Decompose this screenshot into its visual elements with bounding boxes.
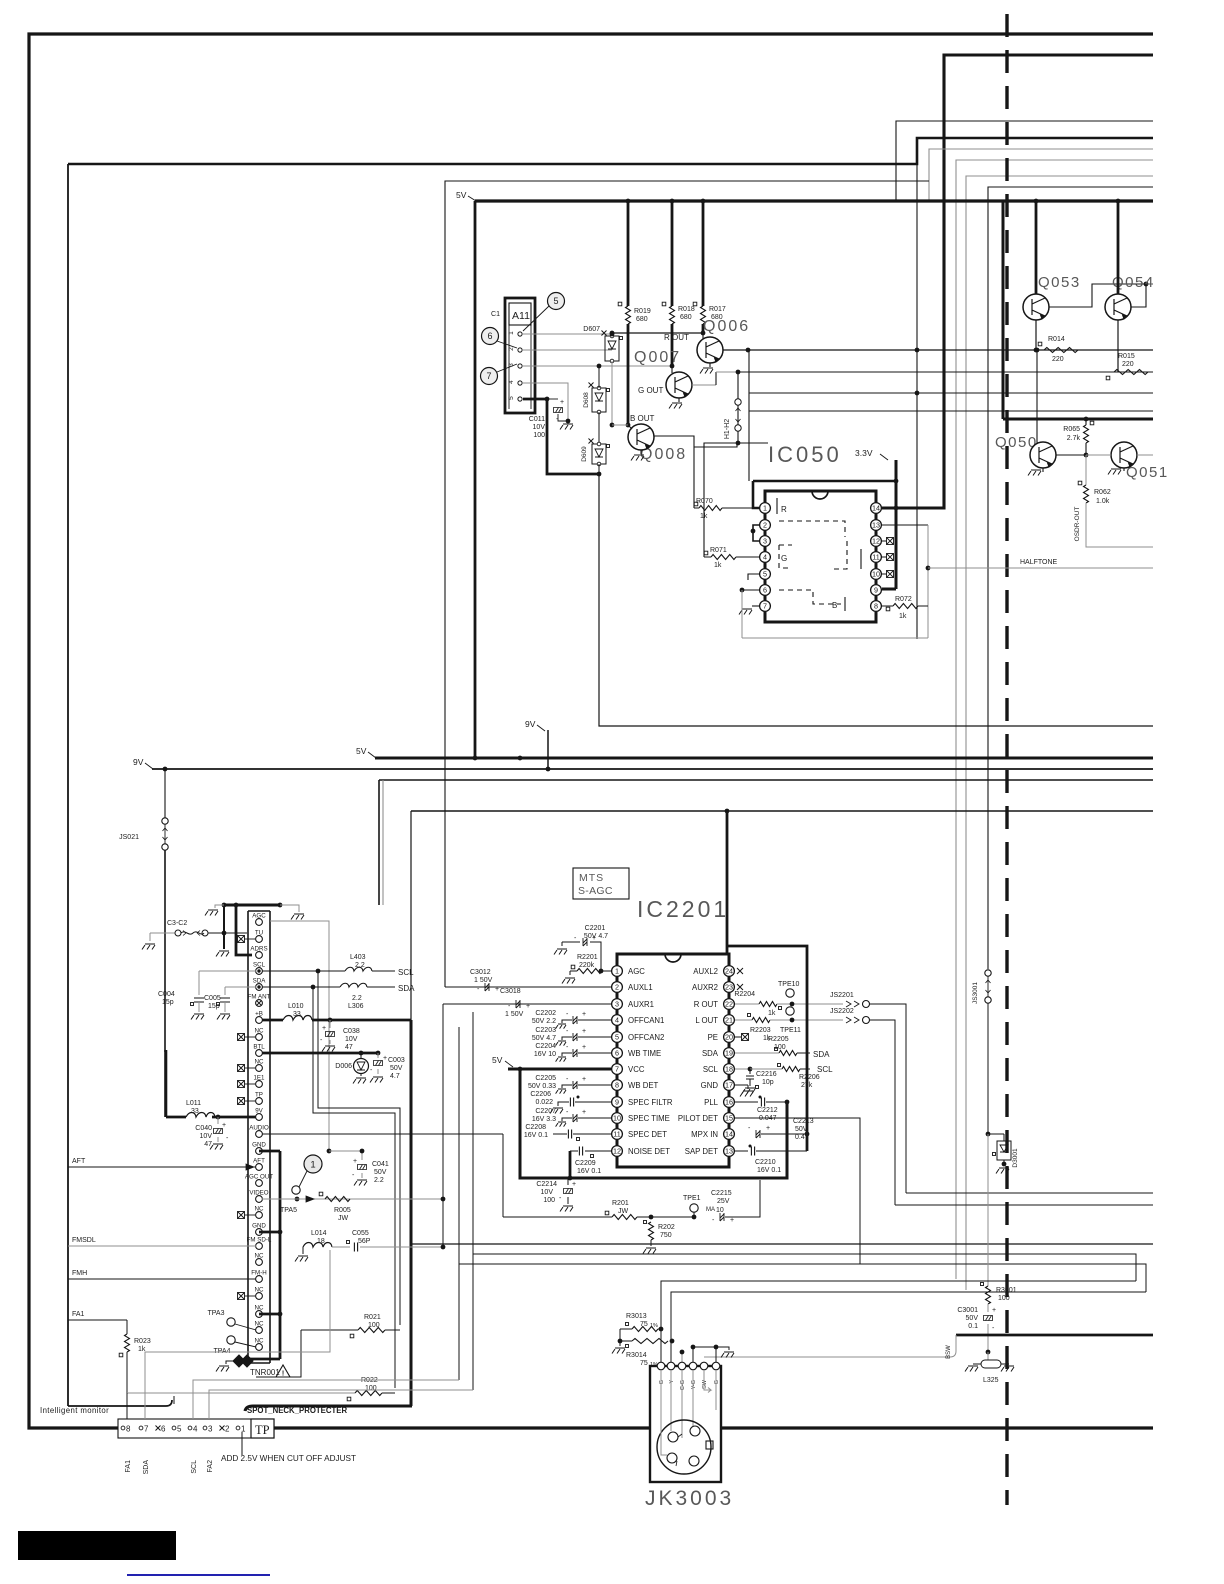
svg-text:AUXL1: AUXL1 <box>628 983 653 992</box>
svg-text:100: 100 <box>365 1385 377 1392</box>
svg-text:+: + <box>560 399 564 406</box>
svg-text:50V 2.2: 50V 2.2 <box>532 1018 556 1025</box>
svg-text:C055: C055 <box>352 1230 369 1237</box>
svg-text:L010: L010 <box>288 1003 304 1010</box>
svg-text:AFT: AFT <box>72 1158 86 1165</box>
capacitor C011 <box>547 398 558 400</box>
svg-text:Q006: Q006 <box>703 318 750 335</box>
wire row 411 <box>749 410 1153 412</box>
svg-text:5V: 5V <box>356 746 367 756</box>
svg-text:FA1: FA1 <box>125 1460 132 1473</box>
svg-text:G: G <box>659 1380 665 1384</box>
svg-text:IC050: IC050 <box>768 442 842 467</box>
svg-text:6: 6 <box>161 1425 166 1434</box>
3.3V wire <box>895 460 898 589</box>
inductor L014 <box>303 1243 332 1248</box>
svg-text:+: + <box>730 1217 734 1224</box>
IC050 surround wire bottom <box>742 637 928 639</box>
svg-text:NC: NC <box>255 1027 264 1034</box>
svg-text:L403: L403 <box>350 954 366 961</box>
gray corner wire B <box>956 160 1153 1279</box>
wire x917 <box>916 164 918 639</box>
svg-text:C2205: C2205 <box>535 1075 556 1082</box>
svg-text:C003: C003 <box>388 1057 405 1064</box>
svg-text:7: 7 <box>763 602 767 611</box>
svg-text:R018: R018 <box>678 306 695 313</box>
svg-text:SDA: SDA <box>143 1460 150 1475</box>
svg-text:3: 3 <box>763 537 767 546</box>
svg-text:13: 13 <box>872 521 880 530</box>
5V mid rail <box>375 757 1153 760</box>
svg-text:7: 7 <box>486 371 491 381</box>
resistor R065 <box>1084 425 1089 443</box>
svg-text:7: 7 <box>615 1065 619 1074</box>
svg-text:+: + <box>526 1003 530 1010</box>
svg-text:C2208: C2208 <box>525 1124 546 1131</box>
svg-text:11: 11 <box>613 1130 620 1139</box>
tuner top bus thick <box>224 904 280 907</box>
wire upper right thin <box>896 121 1153 201</box>
svg-text:10V: 10V <box>533 424 546 431</box>
test point TPE10 <box>786 989 794 997</box>
svg-text:1k: 1k <box>899 613 907 620</box>
svg-text:C2203: C2203 <box>535 1027 556 1034</box>
svg-text:JW: JW <box>618 1208 629 1215</box>
svg-text:+: + <box>582 1109 586 1116</box>
Q053 base wire <box>1049 284 1153 307</box>
test point TPE1 <box>690 1204 698 1212</box>
svg-text:SDA: SDA <box>702 1049 719 1058</box>
svg-text:10: 10 <box>613 1114 621 1123</box>
svg-text:17: 17 <box>725 1081 733 1090</box>
svg-text:HALFTONE: HALFTONE <box>1020 559 1058 566</box>
svg-text:+: + <box>582 1011 586 1018</box>
IC2201 thick feed <box>726 811 729 954</box>
circled 1 callout <box>304 1155 322 1173</box>
svg-text:ADRS: ADRS <box>250 945 267 952</box>
JK3003 top pins <box>657 1362 665 1370</box>
svg-text:2.2: 2.2 <box>352 995 362 1002</box>
svg-text:1k: 1k <box>768 1010 776 1017</box>
svg-text:AGC: AGC <box>628 967 645 976</box>
svg-text:NC: NC <box>255 1304 264 1311</box>
wire row 443 to R071 <box>704 443 738 557</box>
wire R OUT row <box>612 332 703 334</box>
capacitor C2209 <box>579 1147 582 1156</box>
svg-text:12: 12 <box>613 1147 621 1156</box>
JK3003 internal wires <box>660 1370 662 1415</box>
svg-text:C005: C005 <box>204 995 221 1002</box>
IC IC2201 body <box>665 954 681 962</box>
svg-text:1.0k: 1.0k <box>1096 498 1110 505</box>
svg-text:C3001: C3001 <box>957 1307 978 1314</box>
svg-text:R014: R014 <box>1048 336 1065 343</box>
svg-text:C2215: C2215 <box>711 1190 732 1197</box>
svg-text:SW: SW <box>702 1379 708 1389</box>
svg-text:15: 15 <box>725 1114 733 1123</box>
svg-text:R023: R023 <box>134 1338 151 1345</box>
Q008 collector wire to R070 <box>654 436 694 508</box>
ground mid <box>223 905 225 949</box>
svg-text:FM SD-L: FM SD-L <box>247 1236 272 1243</box>
svg-text:SDA: SDA <box>253 977 267 984</box>
svg-text:NC: NC <box>255 1058 264 1065</box>
tuner connector body <box>247 911 249 1363</box>
svg-text:1: 1 <box>763 504 767 513</box>
svg-text:AUDIO: AUDIO <box>249 1124 269 1131</box>
svg-text:C3012: C3012 <box>470 969 491 976</box>
svg-text:C2210: C2210 <box>755 1159 776 1166</box>
tuner outline gray <box>270 921 329 1151</box>
svg-text:R2204: R2204 <box>734 991 755 998</box>
resistor R2201 <box>569 971 571 975</box>
svg-text:C2201: C2201 <box>585 925 606 932</box>
svg-text:56P: 56P <box>358 1238 371 1245</box>
resistor R072 <box>882 605 893 607</box>
SCL vertical route <box>318 971 400 1325</box>
resistor R071 <box>704 556 711 558</box>
svg-text:5: 5 <box>763 570 767 579</box>
svg-text:4: 4 <box>193 1425 198 1434</box>
svg-text:R005: R005 <box>334 1207 351 1214</box>
thick loop around IC2201 <box>520 1069 787 1178</box>
box MTS section left edge <box>410 811 412 1020</box>
svg-text:+: + <box>322 1025 326 1032</box>
svg-text:C038: C038 <box>343 1028 360 1035</box>
blue underline <box>127 1574 270 1576</box>
svg-text:SCL: SCL <box>191 1460 198 1474</box>
wire FMSDL <box>68 1245 256 1247</box>
callout circle 5 <box>548 293 565 310</box>
svg-text:0.1: 0.1 <box>968 1323 978 1330</box>
svg-text:100: 100 <box>543 1197 555 1204</box>
wire BSW <box>704 1335 956 1357</box>
wire TP pin3 riser FA2 <box>209 1390 473 1419</box>
inductor L011 9V row <box>166 1116 186 1119</box>
svg-text:13: 13 <box>725 1147 733 1156</box>
thick +B wire down left <box>410 1020 413 1406</box>
jumper H1-H2 <box>737 372 739 443</box>
svg-text:19: 19 <box>725 1049 733 1058</box>
svg-text:16V 0.1: 16V 0.1 <box>524 1132 548 1139</box>
svg-text:+: + <box>592 935 596 942</box>
svg-text:1k: 1k <box>714 562 722 569</box>
svg-text:33: 33 <box>191 1108 199 1115</box>
svg-text:TPE1: TPE1 <box>683 1195 701 1202</box>
9V stub label right <box>547 730 549 769</box>
spot neck protecter wire <box>245 1406 412 1411</box>
svg-text:15p: 15p <box>162 999 174 1006</box>
capacitor C2210 SAP DET <box>735 1150 748 1152</box>
svg-text:C004: C004 <box>158 991 175 998</box>
svg-text:33: 33 <box>293 1011 301 1018</box>
thick BSW bus <box>956 1334 1153 1337</box>
IC050 pin5-6 wires <box>748 574 759 580</box>
svg-text:NC: NC <box>255 1205 264 1212</box>
svg-text:Y-G: Y-G <box>691 1380 697 1389</box>
svg-text:8: 8 <box>615 1081 619 1090</box>
svg-text:Y: Y <box>669 1380 675 1384</box>
svg-text:MPX IN: MPX IN <box>691 1130 718 1139</box>
thick bus from pin14 up and right <box>876 55 1153 508</box>
MTS S-AGC box <box>573 868 629 899</box>
svg-text:2: 2 <box>225 1425 230 1434</box>
svg-text:AFT: AFT <box>253 1157 265 1164</box>
A11 pins <box>518 332 522 336</box>
5V feed down to mid rail <box>474 201 477 758</box>
svg-text:R3014: R3014 <box>626 1352 647 1359</box>
svg-text:C1: C1 <box>491 311 500 318</box>
svg-text:+: + <box>572 1181 576 1188</box>
svg-text:PE: PE <box>708 1033 718 1042</box>
svg-text:R201: R201 <box>612 1200 629 1207</box>
intelligent monitor line <box>68 1400 172 1406</box>
A11 pin5 wire thick <box>523 399 599 474</box>
wire mid route A <box>473 1254 1136 1281</box>
svg-text:VIDEO: VIDEO <box>249 1189 268 1196</box>
svg-text:5: 5 <box>508 396 515 400</box>
Q006 collector wire <box>723 349 1153 351</box>
svg-text:24: 24 <box>725 967 733 976</box>
svg-text:5V: 5V <box>456 190 467 200</box>
wire row to R015 <box>716 371 738 373</box>
svg-text:C011: C011 <box>529 416 545 423</box>
svg-text:16V 0.1: 16V 0.1 <box>577 1168 601 1175</box>
svg-text:R070: R070 <box>696 498 713 505</box>
resistor R021 <box>256 1330 301 1377</box>
svg-text:SPEC TIME: SPEC TIME <box>628 1114 670 1123</box>
vertical wire x749 <box>748 350 750 481</box>
svg-text:1 50V: 1 50V <box>474 977 493 984</box>
capacitor C3001 <box>987 1304 989 1312</box>
svg-text:A11: A11 <box>512 310 530 322</box>
svg-text:AGC: AGC <box>252 912 266 919</box>
IC050 section bottom wire <box>599 474 1153 726</box>
svg-text:4: 4 <box>508 380 515 384</box>
svg-text:FMSDL: FMSDL <box>72 1237 96 1244</box>
svg-text:750: 750 <box>660 1232 672 1239</box>
svg-text:3.3V: 3.3V <box>855 448 873 458</box>
svg-text:47: 47 <box>345 1044 353 1051</box>
Q007 collector wire <box>692 384 716 386</box>
svg-text:Q053: Q053 <box>1038 274 1081 291</box>
svg-text:FMH: FMH <box>72 1270 87 1277</box>
resistor R2206 SCL <box>735 1068 750 1070</box>
svg-text:C2207: C2207 <box>535 1108 556 1115</box>
svg-text:1: 1 <box>508 331 515 335</box>
svg-text:8: 8 <box>126 1425 131 1434</box>
IC2201 PLL pin16 C2212 <box>735 1101 758 1103</box>
svg-text:L011: L011 <box>186 1100 201 1107</box>
svg-text:TPA5: TPA5 <box>280 1207 297 1214</box>
svg-text:JS2202: JS2202 <box>830 1008 854 1015</box>
svg-text:JW: JW <box>338 1215 349 1222</box>
capacitor C040 <box>217 1117 219 1124</box>
svg-text:R015: R015 <box>1118 353 1135 360</box>
svg-text:+: + <box>222 1122 226 1129</box>
TP box <box>251 1419 274 1438</box>
BTL thick wire <box>262 1052 378 1055</box>
diode D607 <box>605 336 619 361</box>
svg-text:9V: 9V <box>525 719 536 729</box>
svg-text:AGC OUT: AGC OUT <box>245 1173 273 1180</box>
capacitor C003 <box>377 1053 379 1058</box>
IC2201 pins left <box>612 966 623 977</box>
IC050 pins left <box>760 503 771 514</box>
svg-text:PLL: PLL <box>704 1098 719 1107</box>
surge arrester TNR001 <box>233 1355 245 1367</box>
svg-text:TPE11: TPE11 <box>780 1027 801 1034</box>
svg-text:FA1: FA1 <box>72 1311 85 1318</box>
svg-text:220: 220 <box>1122 361 1134 368</box>
svg-text:4: 4 <box>615 1016 619 1025</box>
svg-text:MA: MA <box>706 1207 715 1213</box>
svg-text:1k: 1k <box>700 513 708 520</box>
svg-text:1: 1 <box>310 1160 315 1171</box>
svg-text:G: G <box>781 554 787 563</box>
resistor R2204 pin22 <box>735 1003 759 1005</box>
svg-text:Intelligent monitor: Intelligent monitor <box>40 1406 109 1415</box>
svg-text:75: 75 <box>640 1360 648 1367</box>
svg-text:11: 11 <box>872 553 879 562</box>
svg-text:L014: L014 <box>311 1230 327 1237</box>
resistor R018 <box>671 201 674 306</box>
svg-text:+: + <box>992 1307 996 1314</box>
svg-text:B OUT: B OUT <box>630 414 655 423</box>
svg-text:9V: 9V <box>133 757 144 767</box>
svg-text:GND: GND <box>701 1081 719 1090</box>
svg-text:SAP DET: SAP DET <box>685 1147 718 1156</box>
test point TPE11 <box>786 1007 794 1015</box>
wire JS2201 return <box>906 1192 1153 1194</box>
wire JS2202 return <box>895 1204 1153 1206</box>
svg-text:100: 100 <box>998 1295 1010 1302</box>
connector C1 A11 body <box>505 298 535 413</box>
svg-text:C2202: C2202 <box>535 1010 556 1017</box>
svg-text:FM-H: FM-H <box>251 1269 266 1276</box>
svg-text:+: + <box>582 1044 586 1051</box>
svg-text:9: 9 <box>874 586 878 595</box>
svg-text:2: 2 <box>763 521 767 530</box>
resistor R015 <box>1114 370 1148 375</box>
thick right bus <box>727 946 807 1151</box>
svg-text:2.2: 2.2 <box>374 1177 384 1184</box>
capacitor C041 <box>329 1151 362 1160</box>
svg-text:10V: 10V <box>541 1189 554 1196</box>
connector TP bar <box>118 1419 274 1438</box>
svg-text:SPEC FILTR: SPEC FILTR <box>628 1098 673 1107</box>
svg-text:G OUT: G OUT <box>638 386 663 395</box>
svg-text:GND: GND <box>252 1141 266 1148</box>
wire TP pin7 riser SDA <box>145 1250 330 1419</box>
svg-text:R019: R019 <box>634 308 651 315</box>
svg-text:NC: NC <box>255 1337 264 1344</box>
diode D608 <box>592 388 606 412</box>
svg-text:22: 22 <box>725 1000 733 1009</box>
svg-text:100: 100 <box>774 1044 786 1051</box>
Q050 collector wire <box>1056 454 1086 456</box>
svg-text:R202: R202 <box>658 1224 675 1231</box>
svg-text:JK3003: JK3003 <box>645 1487 734 1510</box>
inductor L010 +B row <box>262 1019 283 1022</box>
capacitor C2214 <box>567 1178 569 1185</box>
IC2201 pins right <box>724 966 735 977</box>
svg-text:NC: NC <box>255 1252 264 1259</box>
IC050 ground pin7 <box>752 605 759 607</box>
svg-text:TP: TP <box>255 1423 270 1437</box>
svg-text:TU: TU <box>255 929 263 936</box>
thick 5V branch right <box>1002 201 1005 419</box>
JK3003 pin risers <box>661 1281 1136 1362</box>
svg-text:SDA: SDA <box>813 1050 830 1059</box>
tuner pins <box>256 919 263 926</box>
resistor R014 <box>1044 348 1078 353</box>
svg-text:TNR001: TNR001 <box>250 1368 280 1377</box>
svg-text:16V 0.1: 16V 0.1 <box>757 1167 781 1174</box>
svg-text:NC: NC <box>255 1320 264 1327</box>
svg-text:Q051: Q051 <box>1126 464 1169 481</box>
svg-text:+: + <box>495 986 499 993</box>
svg-text:WB TIME: WB TIME <box>628 1049 661 1058</box>
svg-text:10p: 10p <box>762 1079 774 1086</box>
svg-text:JS3001: JS3001 <box>972 982 979 1004</box>
svg-text:!: ! <box>282 1371 284 1378</box>
svg-text:50V 4.7: 50V 4.7 <box>532 1035 556 1042</box>
svg-text:R2205: R2205 <box>768 1036 789 1043</box>
capacitor C038 <box>329 1020 331 1028</box>
resistor R2203 pin21 <box>735 1019 752 1021</box>
svg-text:14: 14 <box>872 504 880 513</box>
IC050 pins right <box>871 503 882 514</box>
svg-text:JS2201: JS2201 <box>830 992 854 999</box>
svg-text:10V: 10V <box>345 1036 358 1043</box>
JK3003 DIN circle <box>657 1420 711 1474</box>
svg-text:R017: R017 <box>709 306 726 313</box>
A11 pin2 wire <box>523 349 612 351</box>
svg-text:C2212: C2212 <box>757 1107 778 1114</box>
svg-text:R OUT: R OUT <box>694 1000 718 1009</box>
svg-text:SDA: SDA <box>398 984 415 993</box>
svg-text:NC: NC <box>255 1286 264 1293</box>
wire FMH <box>68 1278 256 1280</box>
svg-text:16V 3.3: 16V 3.3 <box>532 1116 556 1123</box>
svg-text:7: 7 <box>144 1425 149 1434</box>
svg-text:IC2201: IC2201 <box>637 896 729 922</box>
svg-text:B: B <box>832 601 837 610</box>
box MTS section top <box>411 810 1153 812</box>
svg-text:OFFCAN1: OFFCAN1 <box>628 1016 664 1025</box>
svg-text:NOISE DET: NOISE DET <box>628 1147 670 1156</box>
svg-text:R2201: R2201 <box>577 954 598 961</box>
svg-text:R: R <box>781 505 787 514</box>
svg-text:C041: C041 <box>372 1161 389 1168</box>
svg-text:15p: 15p <box>208 1003 220 1010</box>
svg-text:50V: 50V <box>966 1315 979 1322</box>
wire corner D to JS3001 <box>988 187 1153 969</box>
svg-text:D607: D607 <box>583 326 600 333</box>
resistor R005 <box>325 1197 350 1202</box>
diode D609 <box>592 444 606 464</box>
HALFTONE wire <box>928 567 1153 569</box>
svg-text:R021: R021 <box>364 1314 381 1321</box>
svg-text:5: 5 <box>177 1425 182 1434</box>
IC2201 PILOT DET pin15 <box>735 1118 860 1264</box>
IC050 pin2-3 strap <box>753 525 759 541</box>
svg-text:G: G <box>714 1380 720 1384</box>
svg-text:5: 5 <box>615 1033 619 1042</box>
svg-text:H1-H2: H1-H2 <box>724 419 731 439</box>
resistor R201 <box>503 1216 612 1218</box>
